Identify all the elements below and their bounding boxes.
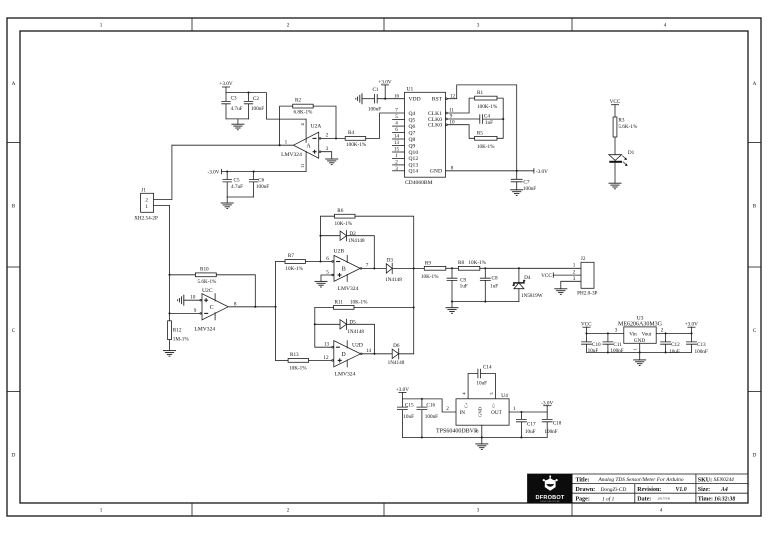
svg-text:4.7uF: 4.7uF [231, 106, 243, 112]
wire R3 to D1 [614, 137, 616, 155]
power VCC (R3) [610, 99, 621, 117]
junction [384, 98, 386, 100]
svg-text:Size:: Size: [698, 487, 710, 493]
junction [314, 323, 316, 325]
svg-text:J2: J2 [581, 256, 586, 262]
wire U3 bottom rail [587, 351, 692, 353]
svg-text:Q5: Q5 [409, 117, 416, 123]
svg-text:SKU:: SKU: [698, 477, 712, 483]
capacitor C13 [687, 333, 708, 355]
wire U1 GND to -3.0V [446, 170, 534, 172]
svg-text:C5: C5 [234, 177, 240, 183]
wire RST loop [447, 85, 516, 171]
wire/ground U2B pin5 [315, 275, 332, 287]
svg-text:GND: GND [430, 169, 442, 175]
ground (R12) [163, 351, 176, 357]
resistor R3 [613, 117, 638, 137]
svg-text:R1: R1 [477, 90, 483, 96]
wire D1 to ground [614, 161, 616, 184]
svg-text:CLK0: CLK0 [428, 123, 442, 129]
capacitor C3 [222, 93, 243, 119]
svg-text:6: 6 [326, 256, 329, 262]
svg-text:C10: C10 [592, 342, 601, 348]
ground (C9 rail) [446, 302, 459, 314]
svg-text:R5: R5 [477, 130, 483, 136]
svg-text:B: B [12, 204, 16, 210]
junction [690, 332, 692, 334]
capacitor C12 [661, 332, 681, 355]
svg-text:100nF: 100nF [523, 186, 536, 192]
svg-text:Q4: Q4 [409, 111, 416, 117]
IC U1 CD4060BM [393, 87, 456, 187]
svg-text:RST: RST [432, 97, 443, 103]
svg-text:3: 3 [615, 328, 618, 334]
svg-text:10K-1%: 10K-1% [468, 260, 486, 266]
svg-text:VCC: VCC [581, 321, 592, 327]
svg-text:1M-1%: 1M-1% [173, 337, 190, 343]
diode D5 [315, 319, 375, 354]
svg-text:-3.0V: -3.0V [208, 170, 220, 176]
resistor R8 [458, 260, 487, 270]
IC U4 TPS60400 [436, 393, 509, 434]
svg-text:1 of 1: 1 of 1 [602, 496, 615, 503]
svg-text:C-: C- [491, 403, 496, 408]
svg-text:C13: C13 [697, 342, 706, 348]
capacitor C15 [397, 399, 414, 438]
junction [520, 411, 522, 413]
svg-text:-3.0V: -3.0V [536, 169, 548, 175]
svg-text:DRIVE THE FUTURE: DRIVE THE FUTURE [540, 501, 560, 503]
svg-text:10K-1%: 10K-1% [350, 299, 368, 305]
svg-text:1N5819W: 1N5819W [521, 293, 543, 299]
power +3.0V (U4 in) [396, 387, 409, 399]
wire/ground J2 pin3 [554, 281, 581, 294]
capacitor C5 [223, 171, 243, 197]
capacitor C7 [511, 171, 536, 192]
wire R5 left to CLK0 pin10 [447, 125, 474, 139]
wire U4 bottom rail [402, 436, 547, 438]
op-amp U2D [323, 341, 371, 378]
svg-text:4: 4 [664, 23, 667, 29]
svg-text:D: D [753, 453, 757, 459]
power +3.0V (C3/C2 rail) [219, 81, 232, 93]
connector J2 [573, 256, 598, 297]
junction [481, 436, 483, 438]
svg-text:10uF: 10uF [588, 348, 599, 354]
junction [421, 398, 423, 400]
resistor R2 [293, 98, 314, 116]
svg-text:1: 1 [100, 23, 103, 29]
svg-text:6.8K-1%: 6.8K-1% [294, 110, 314, 116]
ground (D1) [609, 183, 622, 189]
svg-text:R12: R12 [173, 328, 182, 334]
svg-text:16:32:38: 16:32:38 [714, 497, 735, 503]
U1 pin numbers left [394, 93, 400, 172]
wire U2C pin9 junction [168, 312, 170, 314]
svg-text:100nF: 100nF [695, 349, 708, 355]
IC U3 ME6206 [618, 315, 663, 350]
svg-text:100nF: 100nF [544, 429, 557, 435]
svg-text:2: 2 [145, 198, 148, 204]
svg-text:D: D [12, 453, 16, 459]
svg-text:Q14: Q14 [409, 169, 419, 175]
svg-text:C1: C1 [372, 87, 378, 93]
svg-text:VCC: VCC [610, 99, 621, 105]
power -3.0V (U4 out) [541, 400, 553, 412]
op-amp U2C [190, 288, 237, 332]
svg-text:C2: C2 [253, 96, 259, 102]
svg-text:Q6: Q6 [409, 124, 416, 130]
junction [254, 306, 256, 308]
svg-text:+3.0V: +3.0V [378, 79, 391, 85]
power -3.0V (C5/C6 rail) [208, 169, 222, 175]
junction [484, 301, 486, 303]
junction [421, 436, 423, 438]
svg-text:1N4148: 1N4148 [348, 238, 365, 244]
junction [451, 267, 453, 269]
svg-text:A: A [306, 143, 311, 149]
svg-text:1N4148: 1N4148 [347, 329, 364, 335]
capacitor C6 [249, 171, 269, 197]
svg-text:2: 2 [661, 328, 664, 334]
svg-text:C6: C6 [258, 177, 264, 183]
svg-text:R10: R10 [200, 266, 209, 272]
svg-text:U4: U4 [501, 393, 508, 399]
resistor R5 [475, 130, 497, 150]
op-amp U2B [326, 249, 368, 292]
junction [253, 171, 255, 173]
diode D4 schottky [513, 268, 543, 301]
svg-text:1uF: 1uF [490, 284, 498, 290]
svg-text:Q12: Q12 [409, 156, 419, 162]
power +3.0V (U3 out) [685, 321, 698, 334]
resistor R12 [168, 313, 190, 350]
svg-text:1N4148: 1N4148 [385, 277, 402, 283]
svg-text:R9: R9 [425, 260, 431, 266]
svg-text:U2D: U2D [352, 342, 363, 348]
svg-text:PH2.0-3P: PH2.0-3P [577, 291, 597, 297]
svg-text:Analog TDS Sensor/Meter For Ar: Analog TDS Sensor/Meter For Arduino [598, 477, 684, 483]
svg-text:LMV324: LMV324 [194, 326, 215, 332]
svg-text:2: 2 [573, 270, 576, 276]
junction [451, 301, 453, 303]
ground (U3) [633, 360, 646, 366]
wire C3/C2 bottom rail [226, 118, 249, 120]
wire U2A pin2 to R4 [321, 137, 345, 139]
svg-text:C: C [753, 328, 757, 334]
junction [607, 351, 609, 353]
junction [585, 332, 587, 334]
junction [373, 353, 375, 355]
wire U2A pin3 to ground [321, 152, 332, 159]
U2A power stubs pins 4/11 [305, 119, 307, 142]
capacitor C8 [480, 268, 498, 301]
junction [226, 171, 228, 173]
svg-text:C16: C16 [426, 403, 435, 409]
U1 floating stubs Q5-Q14 [393, 120, 405, 171]
svg-text:C9: C9 [460, 278, 466, 284]
wire D3 to R9 node [392, 267, 424, 269]
junction [484, 267, 486, 269]
resistor R6 [335, 208, 356, 227]
resistor R10 [195, 266, 217, 285]
svg-text:10uF: 10uF [525, 429, 536, 435]
resistor R7 [285, 253, 306, 272]
svg-text:13: 13 [324, 342, 330, 348]
svg-text:100nF: 100nF [425, 414, 438, 420]
ground (C7) [510, 190, 523, 196]
svg-text:5.6K-1%: 5.6K-1% [618, 124, 638, 130]
wire R8 right to J2 pin1 [480, 267, 581, 269]
svg-text:1nF: 1nF [485, 120, 493, 126]
svg-text:C3: C3 [231, 96, 237, 102]
svg-text:Q9: Q9 [409, 143, 416, 149]
svg-text:Vout: Vout [642, 331, 652, 337]
wire U3 input rail [587, 332, 624, 334]
svg-text:2: 2 [326, 133, 329, 139]
wire U4 output [509, 411, 547, 413]
svg-text:+3.0V: +3.0V [396, 387, 409, 393]
junction [413, 306, 415, 308]
svg-text:U2C: U2C [202, 288, 213, 294]
svg-text:V1.0: V1.0 [676, 487, 687, 493]
wire R13 right to U2D pin12 [309, 359, 332, 361]
svg-text:10uF: 10uF [476, 380, 487, 386]
svg-text:5: 5 [326, 269, 329, 275]
wire C5/C6 bottom rail [227, 196, 253, 198]
junction [516, 170, 518, 172]
svg-text:J1: J1 [141, 187, 146, 193]
junction [639, 351, 641, 353]
svg-text:A4: A4 [720, 487, 728, 493]
wire R13 left [276, 359, 289, 361]
wire bottom rail C9/C8/D4 [452, 301, 519, 303]
capacitor C10 [582, 333, 602, 354]
wire R2 left to output [280, 106, 293, 145]
junction [168, 274, 170, 276]
svg-text:12: 12 [323, 355, 329, 361]
svg-text:2017/5/8: 2017/5/8 [658, 497, 670, 501]
svg-text:1: 1 [513, 406, 516, 412]
junction [413, 267, 415, 269]
svg-text:100nF: 100nF [368, 107, 381, 113]
junction [520, 436, 522, 438]
svg-text:16: 16 [394, 93, 400, 99]
svg-text:R6: R6 [337, 208, 343, 214]
svg-text:A: A [12, 81, 16, 87]
svg-text:Vin: Vin [629, 331, 637, 337]
resistor R4 [345, 130, 367, 148]
svg-text:Q10: Q10 [409, 150, 419, 156]
svg-text:D3: D3 [387, 257, 394, 263]
svg-text:C15: C15 [405, 402, 414, 408]
wire U4 input rail [402, 399, 456, 412]
svg-text:U2A: U2A [310, 123, 321, 129]
ground (U2A pin3) [325, 159, 338, 165]
wire R11 left riser [315, 307, 334, 347]
svg-text:B: B [753, 204, 757, 210]
svg-text:DongZi-CD: DongZi-CD [600, 487, 627, 493]
wire U2C output to R7/R13 riser [229, 262, 276, 361]
power VCC (U3 in) [581, 321, 592, 333]
svg-text:C18: C18 [553, 420, 562, 426]
wire U3 output rail [656, 332, 691, 334]
wire +3.0V rail to C2 and corner [226, 93, 306, 120]
wire/ground U2C pin10 [178, 295, 200, 306]
svg-text:14: 14 [366, 348, 372, 354]
ground (C3/C2) [231, 119, 244, 130]
svg-text:2: 2 [287, 23, 290, 29]
junction [665, 351, 667, 353]
wire R5 right to node [497, 119, 503, 138]
capacitor C4 [447, 113, 504, 126]
svg-text:4: 4 [660, 508, 663, 514]
svg-text:10K-1%: 10K-1% [477, 144, 495, 150]
capacitor C2 [244, 92, 264, 119]
svg-text:D4: D4 [524, 275, 531, 281]
junction [518, 267, 520, 269]
svg-text:100nF: 100nF [256, 184, 269, 190]
diode D6 [388, 343, 405, 366]
svg-text:GND: GND [477, 406, 482, 417]
svg-text:2: 2 [287, 508, 290, 514]
resistor R13 [288, 352, 309, 371]
svg-text:10K-1%: 10K-1% [335, 221, 353, 227]
U1 pin numbers right [449, 93, 456, 171]
svg-text:A: A [753, 81, 757, 87]
title block [528, 474, 749, 503]
svg-text:10K-1%: 10K-1% [285, 266, 303, 272]
svg-text:11: 11 [300, 163, 305, 168]
svg-text:LMV324: LMV324 [338, 286, 359, 292]
resistor R9 [421, 260, 446, 280]
wire -3.0V rail to U2A V- stub [221, 171, 306, 173]
wire U2B output to D3 [362, 267, 387, 269]
wire R2 right to pin2 net [313, 106, 336, 138]
capacitor C14 flying [462, 364, 496, 399]
DFROBOT logo [543, 475, 558, 490]
svg-text:100nF: 100nF [610, 348, 623, 354]
wire U2A output to J1 riser [172, 144, 294, 146]
capacitor C11 [603, 332, 624, 354]
svg-text:C17: C17 [527, 421, 536, 427]
junction [502, 118, 504, 120]
svg-text:IN: IN [460, 410, 466, 416]
wire D6 to node riser [399, 353, 414, 355]
svg-text:4.7uF: 4.7uF [231, 184, 243, 190]
svg-text:U2B: U2B [334, 249, 345, 255]
junction [319, 235, 321, 237]
svg-text:3: 3 [573, 276, 576, 282]
svg-text:C: C [210, 305, 214, 311]
wire U2D output to D6 [362, 353, 392, 355]
svg-text:C8: C8 [492, 275, 498, 281]
junction [279, 144, 281, 146]
svg-text:C7: C7 [523, 179, 529, 185]
svg-text:SEN0244: SEN0244 [714, 477, 735, 483]
connector J1 [134, 187, 158, 221]
svg-text:C+: C+ [464, 402, 469, 408]
ground (C5/C6) [221, 197, 234, 209]
svg-text:1: 1 [573, 263, 576, 269]
svg-text:1N4148: 1N4148 [388, 360, 405, 366]
svg-text:Date:: Date: [637, 497, 651, 503]
capacitor C18 [542, 412, 562, 437]
wire R1 right to node [497, 98, 503, 119]
svg-text:C11: C11 [613, 342, 622, 348]
svg-text:TPS60400DBVR: TPS60400DBVR [436, 428, 478, 434]
svg-text:R13: R13 [290, 352, 299, 358]
wire U3 GND stub [639, 343, 641, 360]
op-amp U2A [281, 119, 329, 172]
svg-text:C14: C14 [483, 364, 492, 370]
svg-text:R7: R7 [288, 253, 294, 259]
svg-text:100nF: 100nF [251, 106, 264, 112]
capacitor C1 [368, 87, 405, 113]
diode D2 [321, 231, 375, 269]
svg-text:VDD: VDD [409, 97, 421, 103]
junction [247, 92, 249, 94]
svg-text:+3.0V: +3.0V [219, 81, 232, 87]
svg-text:10K-1%: 10K-1% [289, 365, 307, 371]
svg-text:B: B [342, 267, 346, 273]
svg-text:1: 1 [285, 139, 288, 145]
svg-text:R3: R3 [618, 118, 624, 124]
svg-text:C12: C12 [671, 342, 680, 348]
svg-text:C: C [12, 328, 16, 334]
svg-text:2: 2 [446, 406, 449, 412]
U1 right pin bubbles [446, 98, 448, 100]
svg-text:7: 7 [395, 108, 398, 114]
svg-text:U3: U3 [637, 315, 644, 321]
wire R6 right riser [355, 216, 414, 354]
svg-text:LMV324: LMV324 [281, 152, 302, 158]
wire R6 left riser [321, 216, 335, 261]
svg-text:LMV324: LMV324 [335, 371, 356, 377]
svg-text:C4: C4 [484, 113, 490, 119]
LED D1 [609, 150, 635, 166]
junction [607, 332, 609, 334]
svg-text:100K-1%: 100K-1% [346, 142, 367, 148]
svg-text:Revision:: Revision: [637, 487, 661, 493]
svg-text:R4: R4 [348, 130, 354, 136]
svg-text:3: 3 [477, 508, 480, 514]
wire J1 pin1 down to U2C input [154, 205, 170, 313]
junction [335, 137, 337, 139]
junction [319, 260, 321, 262]
wire R9 right [446, 267, 459, 269]
junction [665, 332, 667, 334]
svg-text:10K-1%: 10K-1% [421, 274, 439, 280]
svg-text:U1: U1 [407, 87, 414, 93]
svg-text:100K-1%: 100K-1% [477, 104, 498, 110]
wire R7 right to U2B pin6 [306, 261, 332, 263]
resistor R11 [334, 299, 369, 309]
wire R10 right down to output [216, 275, 255, 307]
svg-text:CD4060BM: CD4060BM [405, 180, 433, 186]
wire R10 left [170, 274, 196, 276]
svg-text:ME6206A30M3G: ME6206A30M3G [618, 322, 663, 328]
wire R11 right [354, 306, 414, 308]
resistor R1 [475, 90, 498, 110]
power -3.0V (U1 GND) [534, 169, 548, 176]
svg-text:Drawn:: Drawn: [576, 487, 596, 493]
capacitor C9 [447, 268, 468, 301]
svg-text:D1: D1 [628, 150, 635, 156]
power VCC (J2 pin2) [541, 273, 581, 279]
diode D3 [385, 257, 402, 283]
wire U4 GND stub [481, 425, 483, 444]
